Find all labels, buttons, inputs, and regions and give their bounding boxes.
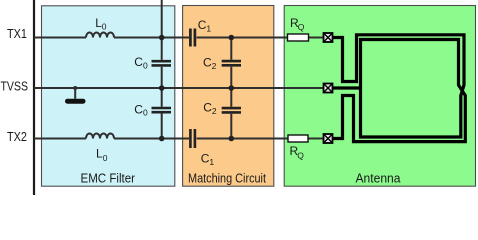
svg-text:EMC Filter: EMC Filter	[81, 171, 136, 186]
capacitor C1 top	[190, 29, 195, 47]
svg-text:2: 2	[212, 106, 217, 116]
capacitor C1 bottom	[190, 129, 195, 148]
inductor L0 bottom	[86, 134, 114, 139]
svg-text:0: 0	[143, 108, 148, 118]
matching circuit box	[183, 6, 274, 187]
resistor RQ top	[288, 34, 309, 41]
svg-text:C: C	[134, 55, 143, 69]
svg-text:C: C	[134, 102, 143, 116]
node TX1/C2	[229, 35, 235, 41]
svg-text:1: 1	[206, 24, 211, 34]
capacitor C2 chain	[230, 38, 232, 139]
svg-text:Antenna: Antenna	[356, 171, 402, 186]
svg-text:Matching Circuit: Matching Circuit	[188, 171, 266, 186]
svg-text:0: 0	[143, 61, 148, 71]
svg-text:2: 2	[212, 61, 217, 71]
antenna box	[284, 6, 475, 187]
svg-text:0: 0	[102, 22, 107, 32]
resistor RQ bottom	[288, 135, 308, 142]
antenna center tap (TVSS)	[332, 86, 361, 89]
inductor L0 top	[86, 33, 114, 38]
pad TX1 (crossed box)	[324, 33, 333, 42]
wire TX1 row	[34, 37, 323, 39]
svg-text:0: 0	[103, 153, 108, 163]
EMC filter box	[42, 6, 175, 186]
svg-text:TVSS: TVSS	[1, 80, 29, 94]
wire TX2 row	[34, 138, 323, 140]
pad TX2 (crossed box)	[324, 134, 333, 143]
capacitor C2 bottom	[222, 108, 241, 112]
capacitor C0 top	[152, 61, 172, 65]
node TX2/C2	[229, 136, 235, 142]
svg-text:Q: Q	[298, 22, 305, 32]
chip edge line	[33, 0, 35, 195]
wire TVSS row	[34, 87, 323, 89]
node TVSS/C2	[229, 85, 235, 91]
svg-text:Q: Q	[297, 150, 304, 160]
capacitor C0 bottom	[152, 108, 172, 112]
node TX1/C0	[159, 35, 165, 41]
antenna coil (2-turn loop with crossover)	[332, 35, 465, 142]
pad TVSS (crossed box)	[324, 84, 333, 93]
ground	[74, 88, 76, 99]
node TVSS/C0	[159, 85, 165, 91]
node TX2/C0	[159, 136, 165, 142]
capacitor C0 chain	[161, 0, 163, 139]
svg-text:TX1: TX1	[7, 27, 27, 41]
capacitor C2 top	[222, 61, 241, 65]
svg-text:TX2: TX2	[7, 130, 27, 144]
svg-text:1: 1	[209, 157, 214, 167]
